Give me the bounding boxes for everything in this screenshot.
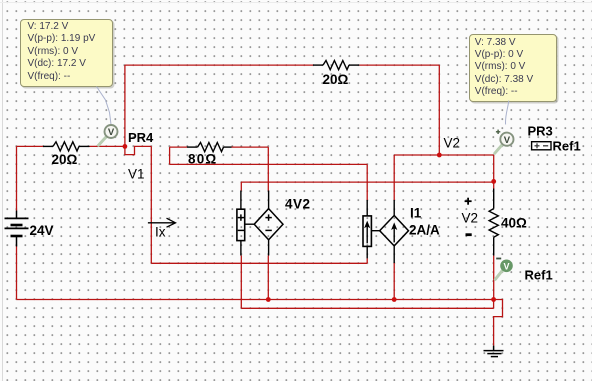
- svg-text:V1: V1: [128, 167, 145, 182]
- VCVS diamond leads: [268, 191, 270, 256]
- CCCS control arrow: [366, 224, 368, 243]
- wire: 20ohm resistor right to PR4 junction: [90, 145, 125, 147]
- wire: top loop horizontal right of 20ohm top resistor: [359, 64, 439, 66]
- wire: CCCS control bottom red stub: [366, 258, 368, 263]
- VCVS diamond plus: [265, 214, 271, 220]
- CCCS I1 control rectangle: [363, 216, 371, 247]
- wire: 80ohm horizontal left lead wire: [170, 146, 187, 148]
- svg-text:V2: V2: [462, 211, 479, 226]
- VCVS diamond minus: [265, 229, 271, 231]
- svg-text:V: V: [504, 135, 511, 146]
- svg-text:2A/A: 2A/A: [409, 223, 440, 238]
- resistor 20ohm top: [313, 60, 359, 69]
- Ix current arrow: [148, 218, 176, 227]
- wire: top loop horizontal left of 20ohm top resistor: [125, 64, 313, 66]
- wire: horizontal at y=164.4 to CCCS control top: [170, 163, 368, 165]
- svg-text:I1: I1: [410, 206, 422, 221]
- minus sign below V2 at 40ohm: [466, 233, 472, 236]
- wire: line2 horizontal: [241, 307, 493, 309]
- VCVS connector rect to diamond: [245, 223, 255, 225]
- battery 24V: [5, 211, 29, 247]
- junction node V2 top: [437, 153, 442, 158]
- wire: V2 right vertical down to 40ohm branch: [493, 155, 495, 181]
- wire: 40ohm bottom red to bottom rail junction: [493, 256, 495, 300]
- svg-text:V2: V2: [444, 136, 461, 151]
- junction node VCVS bottom on rail: [266, 297, 271, 302]
- wire: ground jog at bottom right: [494, 300, 503, 346]
- plus sign above V2 at 40ohm: [465, 198, 472, 205]
- wire: 80ohm horizontal right to corner: [232, 146, 269, 148]
- VCVS control plus: [238, 214, 244, 220]
- wire: sources top rail at y=182: [241, 181, 493, 183]
- junction node CCCS bottom on rail: [392, 297, 397, 302]
- probe Ref1 icon (filled): [495, 258, 513, 280]
- wire: sources top rail corner down to VCVS control plus: [240, 182, 242, 190]
- wire: vertical down to CCCS control top: [366, 164, 368, 200]
- svg-text:24V: 24V: [30, 223, 54, 238]
- resistor 80ohm: [187, 143, 232, 152]
- svg-text:V: V: [108, 127, 115, 138]
- junction node ground corner: [491, 297, 496, 302]
- svg-text:4V2: 4V2: [285, 197, 311, 212]
- VCVS diamond: [254, 209, 283, 240]
- junction node at 40ohm top rail: [491, 179, 496, 184]
- leader line from PR3 readout box to probe PR3: [505, 101, 508, 125]
- probe PR4 icon (magnifier): [99, 125, 118, 145]
- wire: Ix branch horizontal to CCCS control bottom: [151, 262, 367, 264]
- svg-text:Ix: Ix: [155, 225, 166, 240]
- svg-text:40Ω: 40Ω: [501, 216, 527, 231]
- probe readout box for PR4: [20, 19, 113, 88]
- CCCS connector rect to diamond: [371, 230, 379, 232]
- svg-text:20Ω: 20Ω: [52, 152, 78, 167]
- CCCS diamond leads: [393, 200, 395, 263]
- VCVS control minus: [238, 229, 244, 231]
- leader line from PR4 readout box to probe PR4: [97, 87, 112, 125]
- VCVS 4V2 control rectangle: [237, 209, 245, 240]
- wire: battery bottom to bottom rail: [16, 247, 18, 300]
- svg-text:Ref1: Ref1: [525, 268, 553, 283]
- ground symbol: [484, 346, 504, 357]
- CCCS diamond: [380, 216, 409, 246]
- svg-text:PR4: PR4: [128, 130, 154, 145]
- wire: V2 down to CCCS diamond top: [393, 155, 395, 200]
- wire: 80ohm right corner down to VCVS diamond plus: [267, 147, 269, 190]
- wire: PR4 jog notch: [125, 146, 151, 154]
- wire: 40ohm top red stub: [493, 181, 495, 188]
- wire: line2 right vertical up to junction: [493, 300, 495, 309]
- wire: bottom rail (line1): [17, 299, 494, 301]
- wire: PR4 junction up to top loop: [124, 65, 126, 146]
- CCCS diamond arrow: [393, 227, 395, 243]
- svg-text:Ref1: Ref1: [553, 139, 581, 154]
- wire: left vertical from top-left corner down to battery: [16, 146, 18, 210]
- wire: top-left horizontal into 20ohm resistor: [17, 145, 44, 147]
- wire: V2 node horizontal: [394, 154, 494, 156]
- VCVS control leads: [240, 191, 242, 256]
- probe readout box for PR3: [469, 34, 557, 102]
- svg-text:20Ω: 20Ω: [323, 72, 349, 87]
- wire: top loop right vertical down to node V2: [438, 65, 440, 155]
- probe PR3 icon (magnifier with plus): [495, 130, 514, 154]
- PR3 polarity icon box: [532, 142, 551, 150]
- wire: VCVS diamond bottom down to bottom rail: [267, 256, 269, 300]
- svg-text:PR3: PR3: [528, 124, 553, 139]
- wire: Ix branch vertical: [150, 146, 152, 263]
- CCCS control leads: [366, 200, 368, 258]
- resistor 20ohm left: [43, 142, 90, 151]
- svg-text:V: V: [503, 261, 509, 271]
- junction node at PR4 (V1): [123, 144, 128, 149]
- svg-text:80Ω: 80Ω: [188, 152, 217, 167]
- resistor 40ohm vertical: [489, 189, 498, 256]
- wire: 80ohm left corner down: [169, 147, 171, 164]
- wire: VCVS control bottom down to line2: [240, 256, 242, 309]
- wire: CCCS diamond bottom down to bottom rail: [393, 263, 395, 300]
